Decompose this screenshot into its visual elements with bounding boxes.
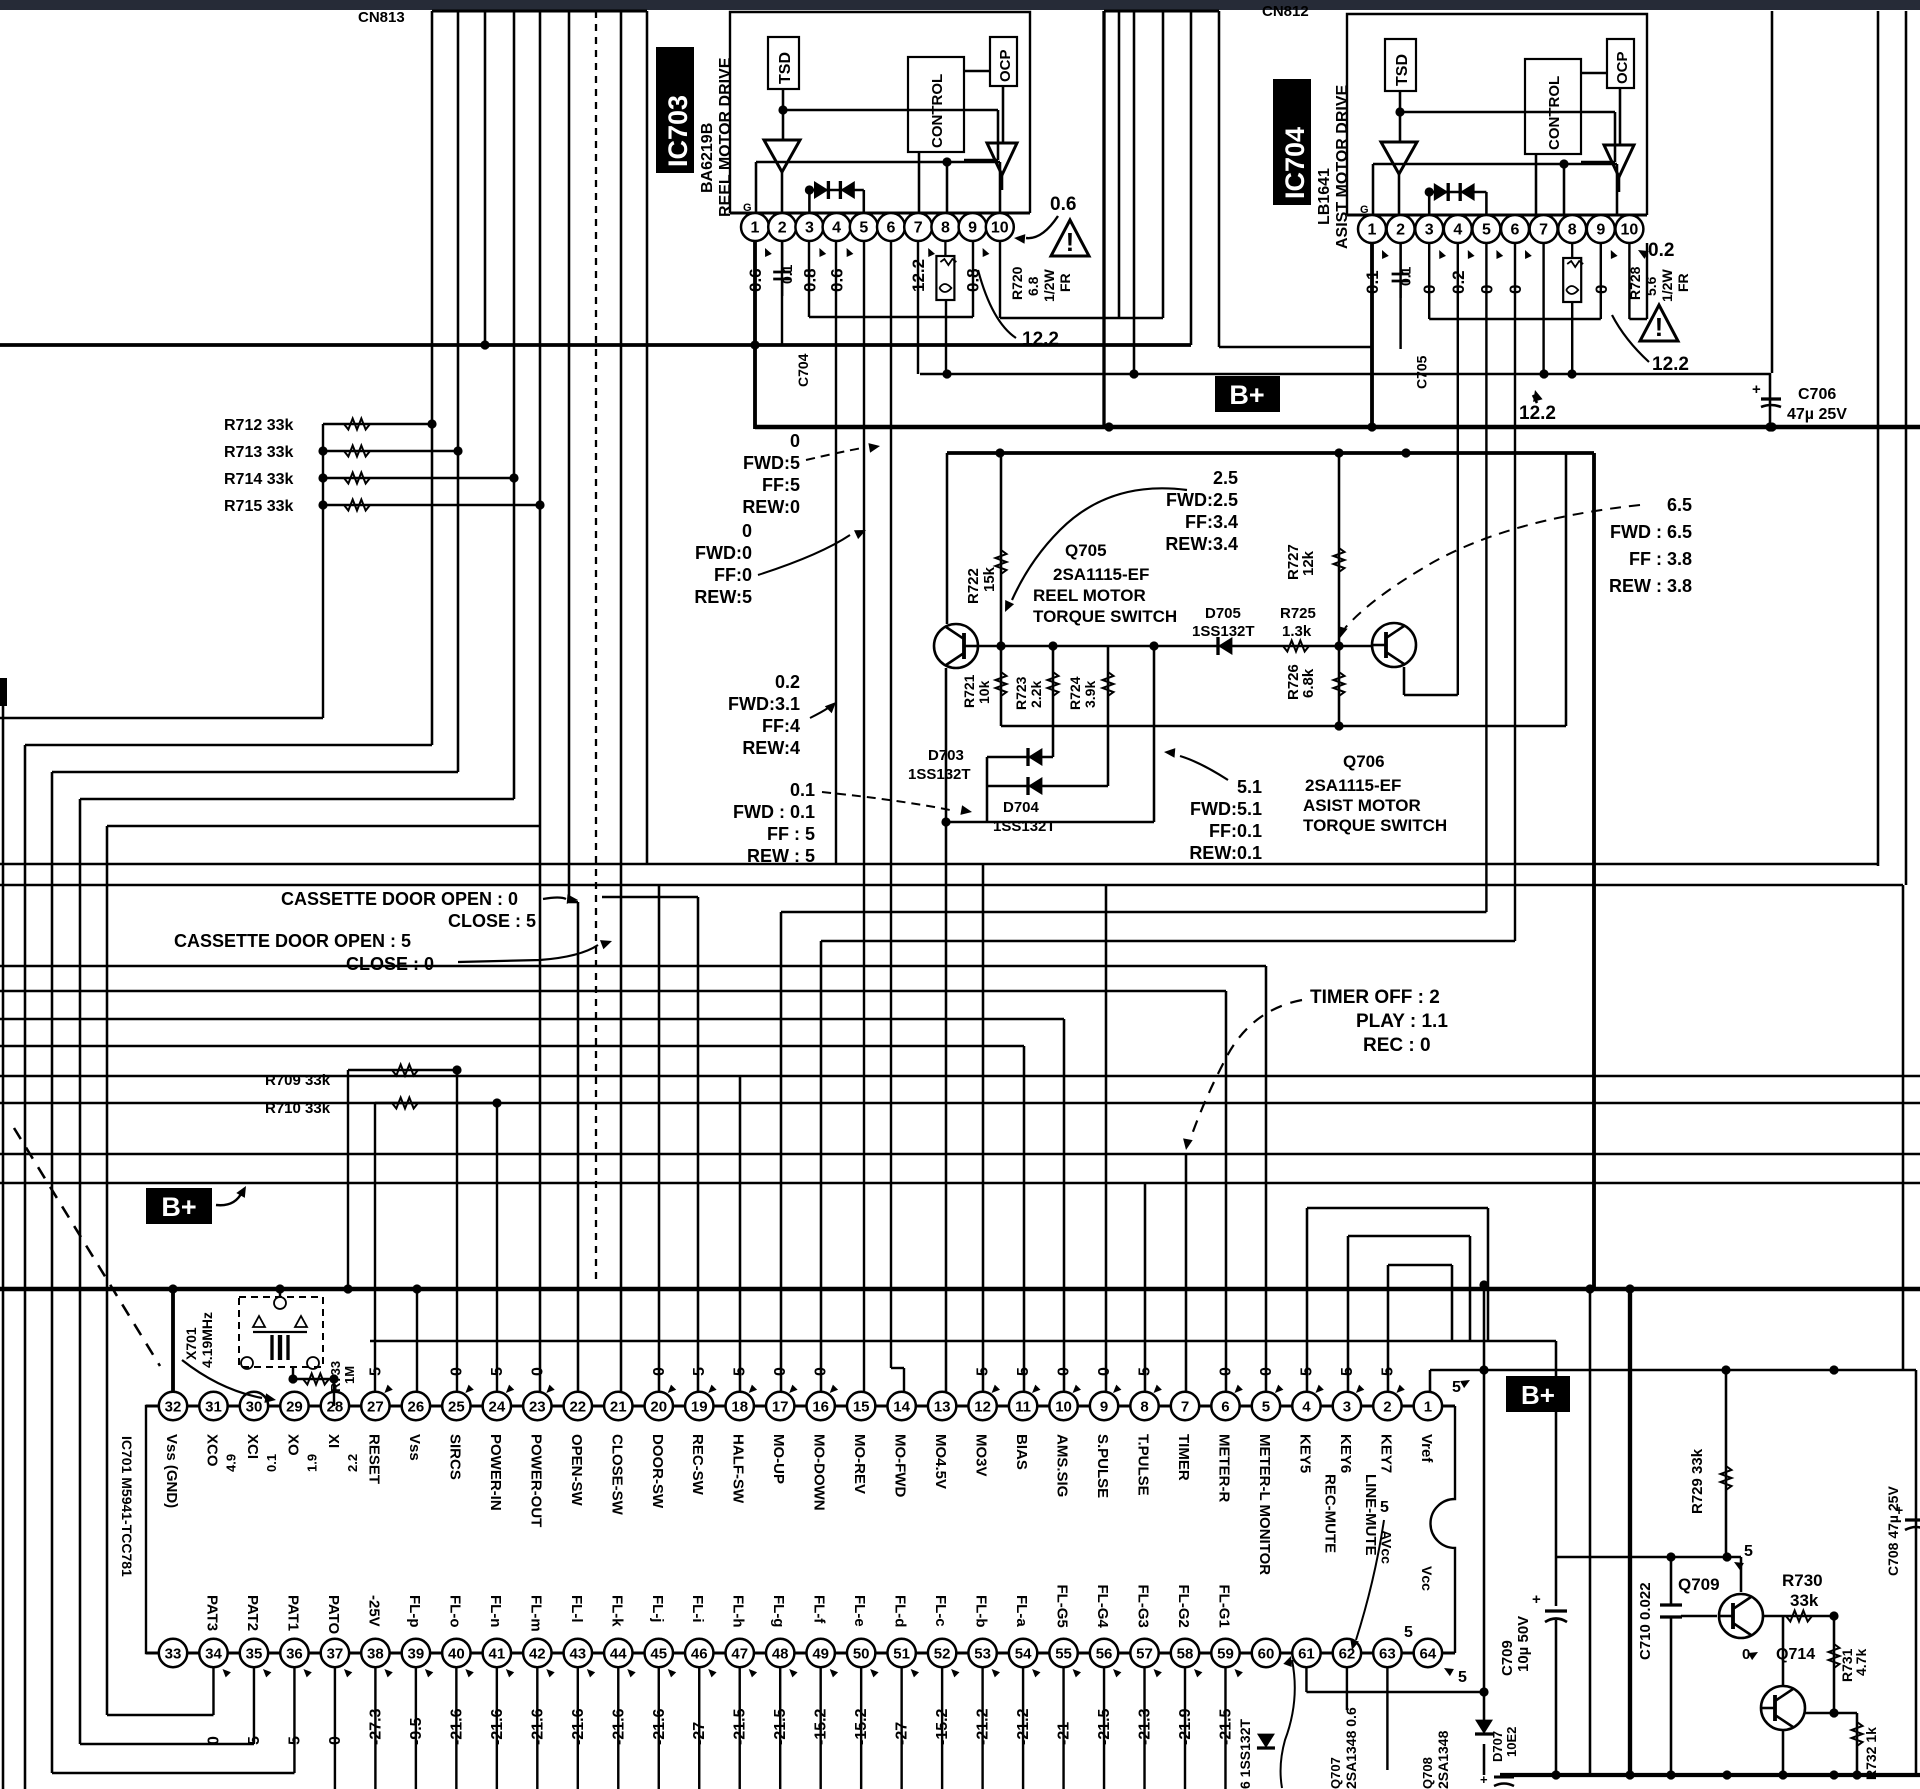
svg-text:REEL MOTOR: REEL MOTOR (1033, 586, 1146, 605)
svg-text:Q705: Q705 (1065, 541, 1107, 560)
svg-text:33: 33 (165, 1645, 182, 1662)
svg-text:2SA1348: 2SA1348 (1435, 1730, 1451, 1789)
svg-text:2.2k: 2.2k (1028, 681, 1044, 708)
svg-text:CN813: CN813 (358, 9, 405, 26)
svg-text:5: 5 (1339, 1367, 1356, 1376)
svg-text:R714 33k: R714 33k (224, 471, 293, 488)
svg-text:+: + (1752, 381, 1761, 398)
svg-text:5: 5 (975, 1367, 992, 1376)
svg-text:FL-b: FL-b (973, 1595, 990, 1627)
svg-text:RESET: RESET (365, 1434, 382, 1484)
svg-text:B+: B+ (161, 1192, 196, 1222)
svg-text:8: 8 (1568, 222, 1577, 239)
svg-text:KEY5: KEY5 (1296, 1434, 1313, 1473)
svg-text:39: 39 (408, 1645, 425, 1662)
svg-text:BA6219B: BA6219B (699, 123, 716, 193)
svg-text:0: 0 (1258, 1367, 1275, 1376)
svg-text:PAT1: PAT1 (284, 1595, 301, 1631)
svg-text:1: 1 (1368, 222, 1377, 239)
svg-text:R730: R730 (1782, 1571, 1823, 1590)
svg-text:57: 57 (1136, 1645, 1153, 1662)
svg-text:!: ! (1655, 312, 1664, 342)
svg-text:4.7k: 4.7k (1853, 1649, 1869, 1676)
svg-text:REW:5: REW:5 (694, 587, 752, 607)
svg-text:53: 53 (974, 1645, 991, 1662)
svg-text:3: 3 (805, 220, 814, 237)
svg-text:0.2: 0.2 (775, 672, 800, 692)
svg-text:50: 50 (853, 1645, 870, 1662)
svg-text:4: 4 (1302, 1398, 1311, 1415)
svg-text:TORQUE SWITCH: TORQUE SWITCH (1033, 607, 1177, 626)
svg-text:25: 25 (448, 1398, 465, 1415)
svg-text:7: 7 (1539, 222, 1548, 239)
svg-text:FF : 5: FF : 5 (767, 824, 815, 844)
svg-text:R715 33k: R715 33k (224, 498, 293, 515)
svg-text:3.9k: 3.9k (1082, 681, 1098, 708)
svg-text:FWD:0: FWD:0 (695, 543, 752, 563)
svg-text:6: 6 (1221, 1398, 1229, 1415)
svg-text:7: 7 (914, 220, 923, 237)
svg-text:R721: R721 (961, 674, 977, 708)
svg-text:R709 33k: R709 33k (265, 1072, 331, 1089)
svg-text:12.2: 12.2 (1022, 329, 1059, 350)
svg-text:R725: R725 (1280, 605, 1316, 622)
svg-text:8: 8 (941, 220, 950, 237)
svg-text:1M: 1M (342, 1366, 357, 1384)
svg-text:FL-f: FL-f (811, 1595, 828, 1624)
svg-text:CASSETTE DOOR OPEN : 5: CASSETTE DOOR OPEN : 5 (174, 931, 411, 951)
svg-text:Q707: Q707 (1328, 1757, 1343, 1789)
svg-text:FL-m: FL-m (527, 1595, 544, 1632)
svg-text:6: 6 (887, 220, 896, 237)
svg-text:IC701 M5941-TCC781: IC701 M5941-TCC781 (119, 1436, 135, 1577)
svg-text:FR: FR (1675, 273, 1691, 292)
svg-text:T.PULSE: T.PULSE (1135, 1434, 1152, 1496)
svg-text:REW:4: REW:4 (742, 738, 800, 758)
svg-text:G: G (743, 202, 752, 214)
svg-text:61: 61 (1298, 1645, 1315, 1662)
svg-text:0.2: 0.2 (1648, 240, 1674, 261)
svg-text:R710 33k: R710 33k (265, 1100, 331, 1117)
svg-text:44: 44 (610, 1645, 627, 1662)
svg-text:REW:3.4: REW:3.4 (1165, 534, 1238, 554)
svg-text:24: 24 (488, 1398, 505, 1415)
svg-text:AMS.SIG: AMS.SIG (1054, 1434, 1071, 1497)
svg-text:29: 29 (286, 1398, 303, 1415)
svg-text:FL-e: FL-e (851, 1595, 868, 1627)
svg-text:35: 35 (246, 1645, 263, 1662)
svg-text:10: 10 (991, 220, 1009, 237)
svg-text:FL-G4: FL-G4 (1094, 1585, 1111, 1629)
svg-text:9: 9 (968, 220, 977, 237)
svg-text:CLOSE : 0: CLOSE : 0 (346, 954, 434, 974)
svg-text:5: 5 (1452, 1379, 1461, 1396)
svg-text:METER-L MONITOR: METER-L MONITOR (1256, 1434, 1273, 1575)
svg-text:MO3V: MO3V (973, 1434, 990, 1477)
svg-text:2: 2 (778, 220, 787, 237)
svg-text:0: 0 (813, 1367, 830, 1376)
svg-text:5: 5 (859, 220, 868, 237)
svg-text:0: 0 (1096, 1367, 1113, 1376)
svg-text:30: 30 (246, 1398, 263, 1415)
svg-text:4.9: 4.9 (223, 1454, 238, 1472)
svg-text:5: 5 (367, 1367, 384, 1376)
svg-text:FWD:5: FWD:5 (743, 453, 800, 473)
svg-text:FL-k: FL-k (608, 1595, 625, 1627)
svg-text:5: 5 (1137, 1367, 1154, 1376)
svg-text:FL-c: FL-c (932, 1595, 949, 1627)
svg-text:FWD : 6.5: FWD : 6.5 (1610, 522, 1692, 542)
svg-text:59: 59 (1217, 1645, 1234, 1662)
svg-text:54: 54 (1015, 1645, 1032, 1662)
svg-text:CN812: CN812 (1262, 3, 1309, 20)
svg-text:FL-G2: FL-G2 (1175, 1585, 1192, 1628)
svg-text:R724: R724 (1067, 676, 1083, 710)
svg-text:Q706: Q706 (1343, 752, 1385, 771)
svg-text:49: 49 (812, 1645, 829, 1662)
svg-text:2SA1115-EF: 2SA1115-EF (1305, 776, 1401, 795)
svg-text:FL-d: FL-d (892, 1595, 909, 1627)
svg-text:KEY6: KEY6 (1337, 1434, 1354, 1473)
svg-text:OCP: OCP (997, 49, 1014, 82)
svg-text:7: 7 (1181, 1398, 1189, 1415)
svg-text:5: 5 (732, 1367, 749, 1376)
svg-text:FL-p: FL-p (406, 1595, 423, 1627)
svg-text:KEY7: KEY7 (1377, 1434, 1394, 1473)
svg-text:REW:0: REW:0 (742, 497, 800, 517)
svg-text:FL-j: FL-j (649, 1595, 666, 1623)
svg-text:12: 12 (974, 1398, 991, 1415)
svg-text:56: 56 (1096, 1645, 1113, 1662)
svg-text:2SA1348 0.6: 2SA1348 0.6 (1343, 1707, 1359, 1789)
svg-text:FL-h: FL-h (730, 1595, 747, 1627)
svg-text:FF:3.4: FF:3.4 (1185, 512, 1238, 532)
svg-text:22: 22 (569, 1398, 586, 1415)
svg-text:REC : 0: REC : 0 (1363, 1035, 1431, 1056)
svg-text:B+: B+ (1229, 380, 1264, 410)
svg-text:0: 0 (448, 1367, 465, 1376)
svg-text:27: 27 (367, 1398, 384, 1415)
svg-text:SIRCS: SIRCS (446, 1434, 463, 1480)
svg-text:10µ 50V: 10µ 50V (1515, 1616, 1532, 1672)
svg-text:D704: D704 (1003, 799, 1040, 816)
svg-text:POWER-OUT: POWER-OUT (527, 1434, 544, 1527)
svg-text:FL-n: FL-n (487, 1595, 504, 1627)
svg-text:FWD : 0.1: FWD : 0.1 (733, 802, 815, 822)
svg-text:FF:5: FF:5 (762, 475, 800, 495)
svg-text:4: 4 (832, 220, 841, 237)
svg-text:LINE-MUTE: LINE-MUTE (1362, 1474, 1379, 1556)
svg-text:0: 0 (742, 521, 752, 541)
svg-text:HALF-SW: HALF-SW (730, 1434, 747, 1504)
svg-text:REC-MUTE: REC-MUTE (1321, 1474, 1338, 1553)
svg-text:15: 15 (853, 1398, 870, 1415)
svg-text:2SA1115-EF: 2SA1115-EF (1053, 565, 1149, 584)
svg-text:FL-g: FL-g (770, 1595, 787, 1627)
svg-text:FF:4: FF:4 (762, 716, 800, 736)
svg-text:1.3k: 1.3k (1282, 623, 1312, 640)
svg-text:1SS132T: 1SS132T (993, 818, 1056, 835)
svg-text:PAT3: PAT3 (203, 1595, 220, 1631)
svg-text:Q709: Q709 (1678, 1575, 1720, 1594)
svg-text:PAT2: PAT2 (244, 1595, 261, 1631)
svg-text:MO-UP: MO-UP (770, 1434, 787, 1484)
svg-text:46: 46 (691, 1645, 708, 1662)
svg-text:FL-o: FL-o (446, 1595, 463, 1627)
svg-text:R723: R723 (1013, 676, 1029, 710)
svg-text:20: 20 (650, 1398, 667, 1415)
svg-text:1/2W: 1/2W (1041, 269, 1057, 302)
svg-text:5: 5 (1262, 1398, 1270, 1415)
svg-text:ASIST MOTOR: ASIST MOTOR (1303, 796, 1421, 815)
svg-text:IC704: IC704 (1280, 127, 1310, 199)
svg-text:26: 26 (408, 1398, 425, 1415)
svg-text:MO-REV: MO-REV (851, 1434, 868, 1494)
svg-text:-25V: -25V (365, 1595, 382, 1627)
svg-text:19: 19 (691, 1398, 708, 1415)
svg-text:REC-SW: REC-SW (689, 1434, 706, 1496)
svg-text:0: 0 (1056, 1367, 1073, 1376)
svg-text:58: 58 (1177, 1645, 1194, 1662)
svg-text:5: 5 (1482, 222, 1491, 239)
svg-text:0.1: 0.1 (264, 1454, 279, 1472)
svg-text:36: 36 (286, 1645, 303, 1662)
svg-text:TIMER: TIMER (1175, 1434, 1192, 1481)
svg-text:43: 43 (569, 1645, 586, 1662)
svg-text:2.5: 2.5 (1213, 468, 1238, 488)
svg-text:5: 5 (1458, 1669, 1467, 1686)
svg-text:FWD:2.5: FWD:2.5 (1166, 490, 1238, 510)
svg-text:9: 9 (1100, 1398, 1108, 1415)
svg-text:DOOR-SW: DOOR-SW (649, 1434, 666, 1509)
svg-text:11: 11 (1015, 1398, 1031, 1415)
svg-text:45: 45 (650, 1645, 667, 1662)
svg-text:10E2: 10E2 (1504, 1727, 1519, 1757)
svg-text:41: 41 (488, 1645, 505, 1662)
svg-text:MO4.5V: MO4.5V (932, 1434, 949, 1489)
svg-text:0.1: 0.1 (790, 780, 815, 800)
svg-text:0: 0 (772, 1367, 789, 1376)
svg-text:FL-G1: FL-G1 (1215, 1585, 1232, 1628)
svg-text:47µ 25V: 47µ 25V (1787, 406, 1847, 423)
svg-text:R733: R733 (328, 1361, 343, 1392)
svg-text:51: 51 (893, 1645, 910, 1662)
svg-text:21: 21 (610, 1398, 627, 1415)
svg-text:TSD: TSD (1394, 54, 1411, 86)
svg-text:D707: D707 (1490, 1731, 1505, 1762)
svg-text:C709: C709 (1499, 1640, 1516, 1676)
svg-text:FWD:5.1: FWD:5.1 (1190, 799, 1262, 819)
svg-text:FR: FR (1057, 273, 1073, 292)
svg-text:64: 64 (1420, 1645, 1437, 1662)
svg-text:FF:0: FF:0 (714, 565, 752, 585)
svg-text:0.6: 0.6 (1050, 194, 1076, 215)
svg-text:IC703: IC703 (663, 95, 693, 167)
svg-text:R732 1k: R732 1k (1863, 1727, 1879, 1780)
svg-text:BIAS: BIAS (1013, 1434, 1030, 1470)
svg-text:2: 2 (1396, 222, 1405, 239)
svg-text:MO-FWD: MO-FWD (892, 1434, 909, 1497)
svg-text:6 1SS132T: 6 1SS132T (1237, 1719, 1253, 1789)
svg-text:1: 1 (1424, 1398, 1432, 1415)
svg-text:CLOSE : 5: CLOSE : 5 (448, 911, 536, 931)
svg-text:METER-R: METER-R (1215, 1434, 1232, 1502)
svg-text:TIMER OFF : 2: TIMER OFF : 2 (1310, 987, 1440, 1008)
svg-text:Q708: Q708 (1420, 1757, 1435, 1789)
svg-text:13: 13 (934, 1398, 951, 1415)
svg-text:B+: B+ (1521, 1380, 1555, 1410)
svg-text:D703: D703 (928, 747, 964, 764)
svg-text:PLAY : 1.1: PLAY : 1.1 (1356, 1011, 1448, 1032)
svg-text:5: 5 (1404, 1624, 1413, 1641)
svg-text:5: 5 (1380, 1499, 1389, 1516)
svg-text:1SS132T: 1SS132T (1192, 623, 1255, 640)
svg-text:12.2: 12.2 (1519, 403, 1556, 424)
svg-text:60: 60 (1258, 1645, 1275, 1662)
svg-text:8: 8 (1140, 1398, 1148, 1415)
svg-text:CASSETTE DOOR OPEN : 0: CASSETTE DOOR OPEN : 0 (281, 889, 518, 909)
svg-text:0: 0 (1217, 1367, 1234, 1376)
svg-text:C708 47µ 25V: C708 47µ 25V (1885, 1486, 1901, 1576)
svg-text:31: 31 (205, 1398, 222, 1415)
svg-text:23: 23 (529, 1398, 546, 1415)
svg-text:LB1641: LB1641 (1316, 168, 1333, 225)
svg-text:15k: 15k (981, 566, 998, 592)
svg-text:+: + (1480, 1772, 1488, 1787)
svg-text:OCP: OCP (1614, 51, 1631, 84)
svg-text:OPEN-SW: OPEN-SW (568, 1434, 585, 1507)
svg-text:52: 52 (934, 1645, 951, 1662)
svg-text:MO-DOWN: MO-DOWN (811, 1434, 828, 1511)
svg-text:4: 4 (1453, 222, 1462, 239)
svg-text:Q714: Q714 (1776, 1646, 1815, 1663)
svg-text:G: G (1360, 204, 1369, 216)
svg-text:42: 42 (529, 1645, 546, 1662)
svg-text:2: 2 (1383, 1398, 1391, 1415)
svg-text:3: 3 (1425, 222, 1434, 239)
svg-text:5: 5 (489, 1367, 506, 1376)
svg-text:REEL MOTOR DRIVE: REEL MOTOR DRIVE (717, 57, 734, 217)
svg-text:17: 17 (772, 1398, 789, 1415)
svg-text:47: 47 (731, 1645, 748, 1662)
svg-text:C706: C706 (1798, 386, 1836, 403)
svg-text:XI: XI (325, 1434, 342, 1448)
svg-text:1/2W: 1/2W (1659, 269, 1675, 302)
svg-text:37: 37 (327, 1645, 344, 1662)
svg-text:0: 0 (529, 1367, 546, 1376)
svg-text:4.19MHz: 4.19MHz (199, 1312, 215, 1368)
svg-text:0: 0 (790, 431, 800, 451)
svg-text:5: 5 (1379, 1367, 1396, 1376)
svg-text:C704: C704 (795, 353, 811, 387)
svg-text:PATO: PATO (325, 1595, 342, 1635)
svg-text:R712 33k: R712 33k (224, 417, 293, 434)
svg-text:48: 48 (772, 1645, 789, 1662)
svg-text:18: 18 (731, 1398, 748, 1415)
svg-text:40: 40 (448, 1645, 465, 1662)
svg-text:14: 14 (893, 1398, 910, 1415)
svg-text:12k: 12k (1300, 550, 1317, 576)
svg-text:C705: C705 (1414, 355, 1430, 389)
svg-text:10: 10 (1621, 222, 1639, 239)
svg-text:ASIST MOTOR DRIVE: ASIST MOTOR DRIVE (1334, 85, 1351, 249)
svg-text:REW : 3.8: REW : 3.8 (1609, 576, 1692, 596)
svg-text:FL-l: FL-l (568, 1595, 585, 1623)
svg-text:0: 0 (651, 1367, 668, 1376)
svg-text:5: 5 (1298, 1367, 1315, 1376)
svg-text:12.2: 12.2 (1652, 354, 1689, 375)
svg-text:FL-G5: FL-G5 (1054, 1585, 1071, 1628)
svg-text:5: 5 (1744, 1543, 1753, 1560)
svg-text:Vcc: Vcc (1419, 1566, 1435, 1591)
svg-text:R722: R722 (965, 568, 982, 604)
svg-text:FF:0.1: FF:0.1 (1209, 821, 1262, 841)
svg-text:5.6: 5.6 (1643, 276, 1659, 296)
svg-text:REW:0.1: REW:0.1 (1189, 843, 1262, 863)
svg-text:D705: D705 (1205, 605, 1241, 622)
svg-text:38: 38 (367, 1645, 384, 1662)
svg-text:5.1: 5.1 (1237, 777, 1262, 797)
svg-text:+: + (1532, 1591, 1541, 1608)
svg-text:XCO: XCO (203, 1434, 220, 1467)
svg-text:6.5: 6.5 (1667, 495, 1692, 515)
svg-text:32: 32 (165, 1398, 182, 1415)
svg-text:Vref: Vref (1418, 1434, 1435, 1463)
svg-text:10k: 10k (976, 680, 992, 704)
svg-text:9: 9 (1596, 222, 1605, 239)
svg-text:TORQUE SWITCH: TORQUE SWITCH (1303, 816, 1447, 835)
svg-text:1.9: 1.9 (304, 1454, 319, 1472)
svg-text:XO: XO (284, 1434, 301, 1456)
svg-text:R720: R720 (1009, 266, 1025, 300)
svg-text:Vss (GND): Vss (GND) (163, 1434, 180, 1508)
svg-text:TSD: TSD (777, 52, 794, 84)
svg-text:5: 5 (691, 1367, 708, 1376)
svg-text:X701: X701 (183, 1327, 199, 1360)
svg-text:!: ! (1066, 227, 1075, 257)
svg-text:16: 16 (812, 1398, 829, 1415)
svg-text:6: 6 (1511, 222, 1520, 239)
svg-text:R713 33k: R713 33k (224, 444, 293, 461)
svg-text:33k: 33k (1790, 1591, 1819, 1610)
svg-text:FWD:3.1: FWD:3.1 (728, 694, 800, 714)
svg-text:6.8k: 6.8k (1300, 668, 1317, 698)
svg-text:Vss: Vss (406, 1434, 423, 1461)
svg-text:R729 33k: R729 33k (1689, 1448, 1706, 1514)
svg-text:3: 3 (1343, 1398, 1351, 1415)
svg-text:POWER-IN: POWER-IN (487, 1434, 504, 1511)
svg-text:S.PULSE: S.PULSE (1094, 1434, 1111, 1498)
svg-text:1: 1 (751, 220, 760, 237)
svg-text:XCI: XCI (244, 1434, 261, 1459)
svg-text:FL-G3: FL-G3 (1135, 1585, 1152, 1628)
svg-text:FL-i: FL-i (689, 1595, 706, 1623)
svg-text:55: 55 (1055, 1645, 1072, 1662)
svg-text:FL-a: FL-a (1013, 1595, 1030, 1627)
svg-text:10: 10 (1055, 1398, 1072, 1415)
svg-text:34: 34 (205, 1645, 222, 1662)
svg-text:63: 63 (1379, 1645, 1396, 1662)
svg-text:1SS132T: 1SS132T (908, 766, 971, 783)
svg-text:CLOSE-SW: CLOSE-SW (608, 1434, 625, 1516)
svg-text:C710 0.022: C710 0.022 (1637, 1582, 1654, 1660)
svg-text:6.8: 6.8 (1025, 276, 1041, 296)
svg-text:2.2: 2.2 (345, 1454, 360, 1472)
svg-text:FF : 3.8: FF : 3.8 (1629, 549, 1692, 569)
svg-text:5: 5 (1015, 1367, 1032, 1376)
